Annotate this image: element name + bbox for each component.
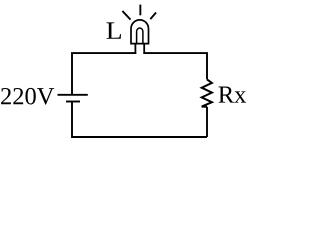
battery cell 220V: short plate <box>66 101 80 103</box>
wire top-right segment and right upper wire <box>143 53 207 79</box>
label L <box>106 22 120 38</box>
lamp L: right lead <box>143 43 145 54</box>
wire right lower segment <box>206 107 208 137</box>
lamp L: light ray right <box>150 13 156 20</box>
battery cell 220V: long plate <box>58 94 88 96</box>
label 220V <box>1 88 54 105</box>
lamp L: left lead <box>134 43 136 54</box>
resistor Rx zigzag <box>202 79 212 106</box>
wire left lower segment and bottom wire <box>72 102 207 138</box>
lamp L: inner filament arch <box>137 28 143 43</box>
label Rx <box>219 87 247 103</box>
lamp L: outer envelope (dome) <box>131 20 149 44</box>
wire top-left segment and left upper wire <box>72 53 136 95</box>
lamp L: light ray vertical <box>139 5 141 16</box>
lamp L: light ray left <box>122 11 130 20</box>
